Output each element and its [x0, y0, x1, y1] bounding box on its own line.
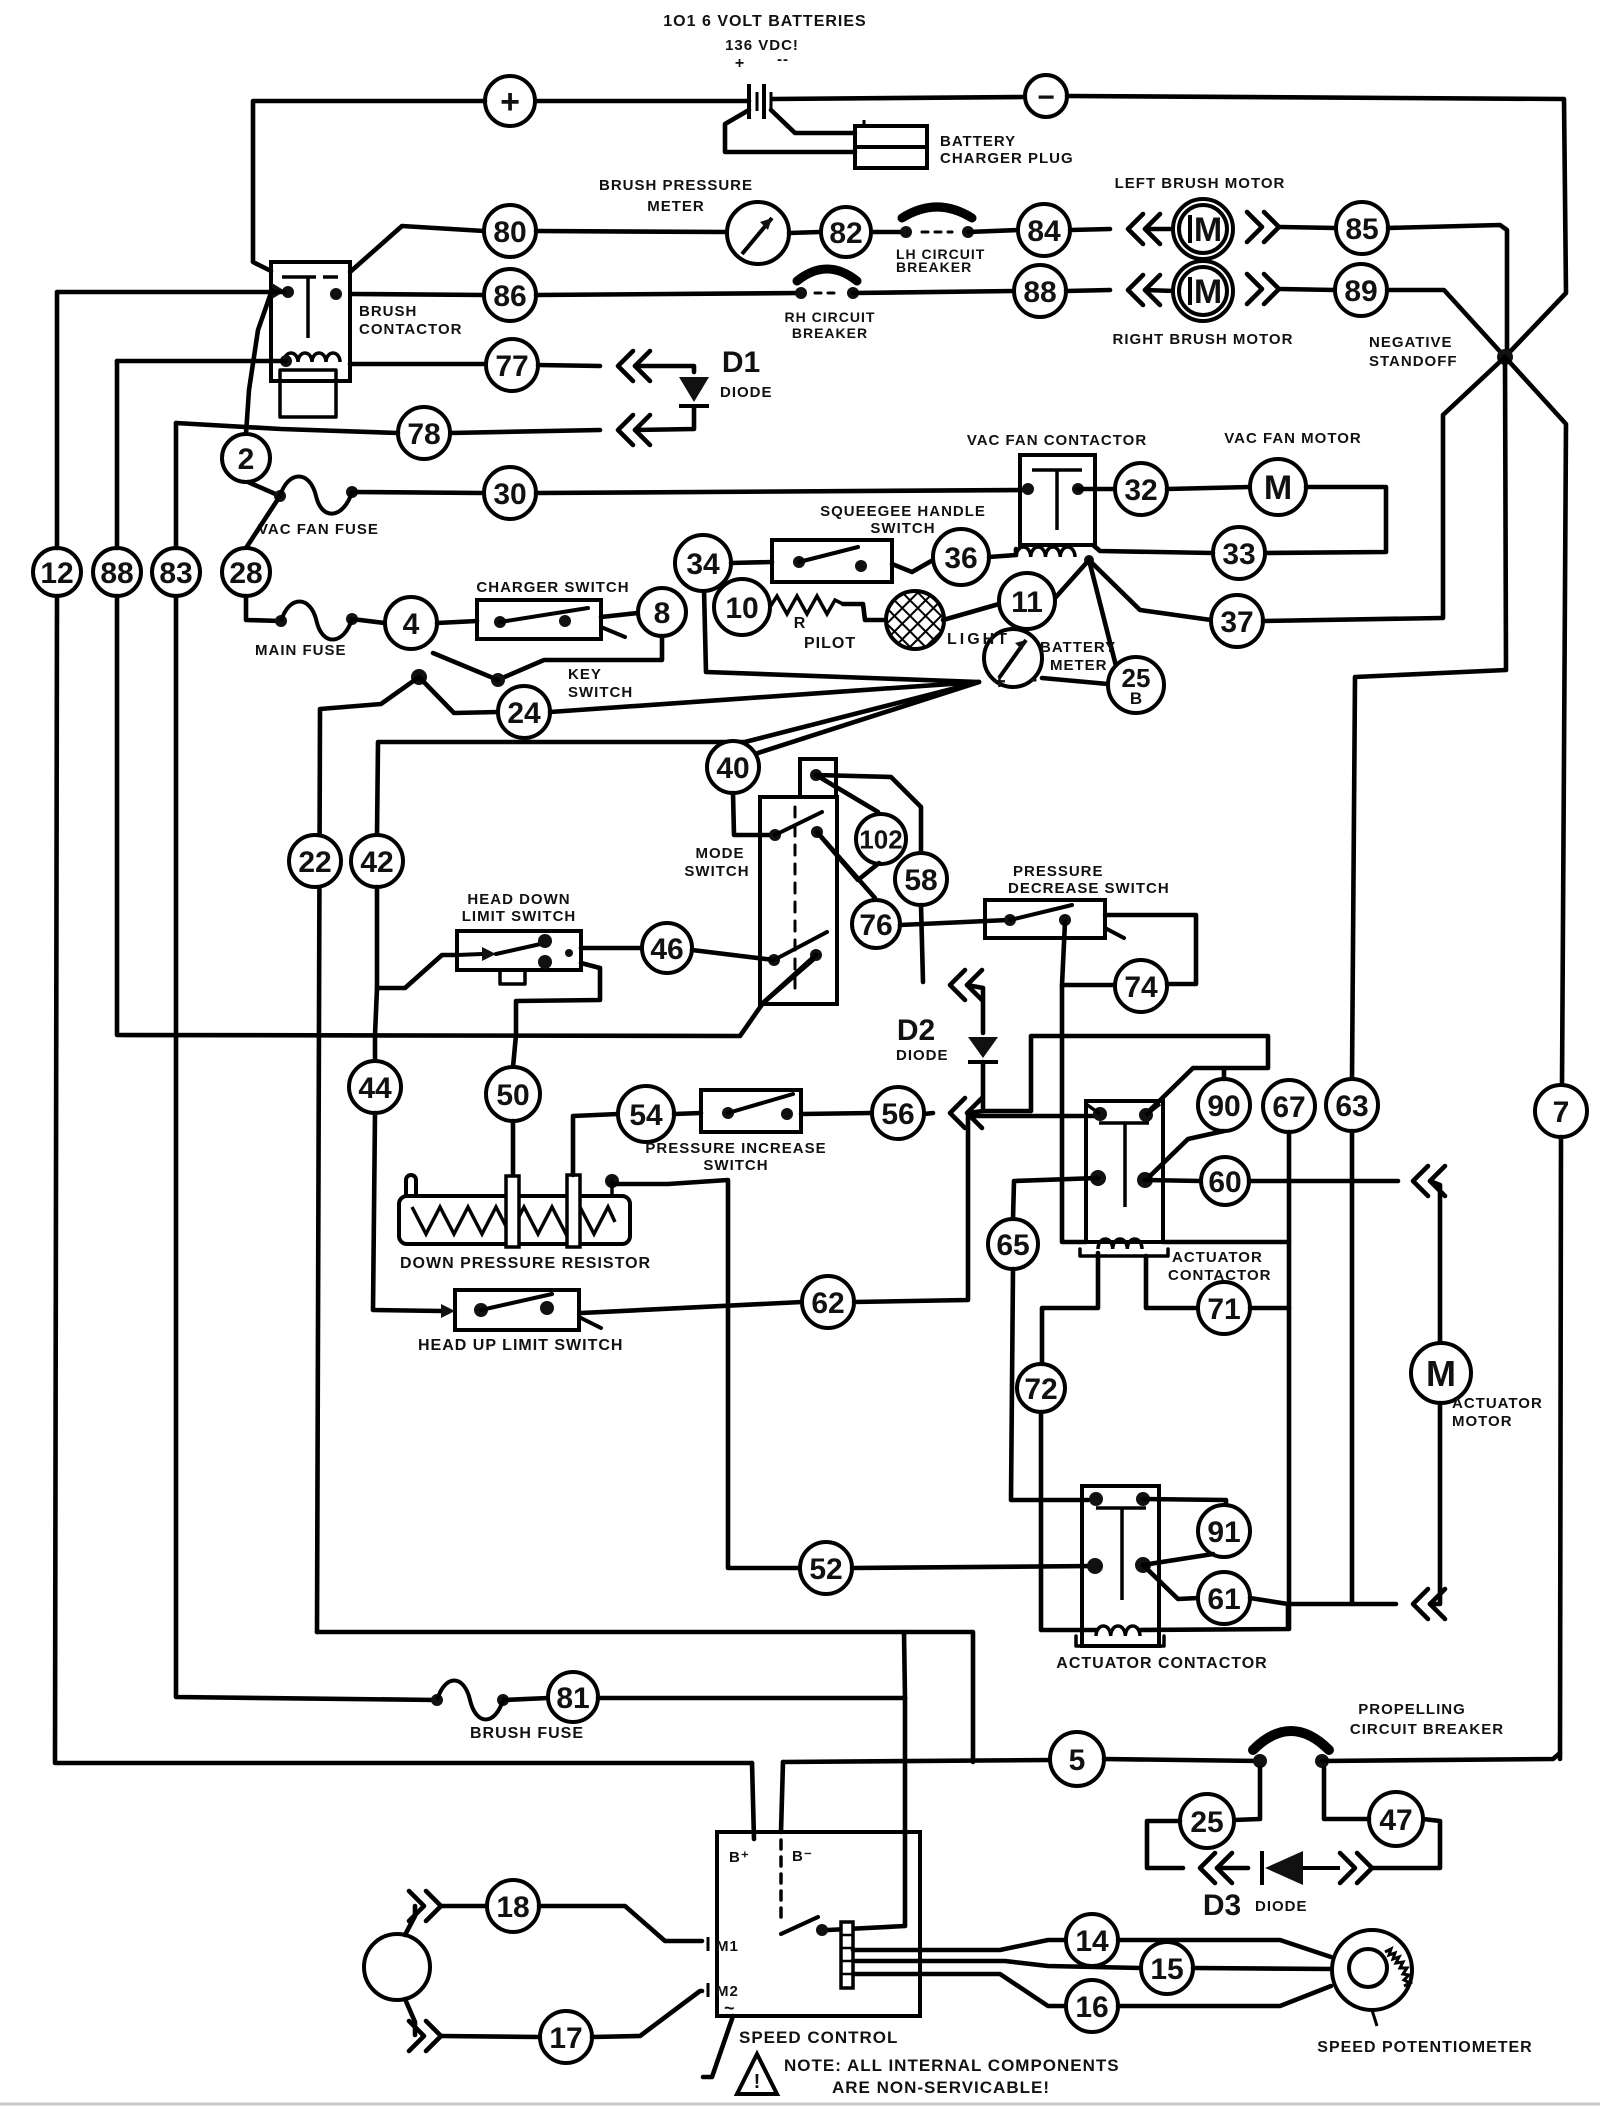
wire brush fuse to 81 — [503, 1698, 548, 1700]
connector chevrons on D3 row left — [1200, 1853, 1215, 1883]
connector chevrons on 77 row — [618, 351, 633, 381]
connector chevrons left of right brush motor — [1128, 275, 1143, 305]
svg-text:NOTE: ALL INTERNAL COMPONENTS: NOTE: ALL INTERNAL COMPONENTS — [784, 2056, 1120, 2075]
svg-text:17: 17 — [549, 2022, 582, 2055]
node 54 — [618, 1086, 674, 1142]
svg-text:M: M — [1194, 211, 1222, 249]
svg-text:CHARGER SWITCH: CHARGER SWITCH — [476, 579, 629, 596]
svg-text:82: 82 — [829, 217, 862, 250]
svg-text:33: 33 — [1222, 538, 1255, 571]
node 86 — [484, 269, 536, 321]
svg-text:R: R — [794, 615, 807, 632]
svg-text:12: 12 — [40, 557, 73, 590]
switch S2 key switch — [411, 669, 427, 685]
svg-text:CHARGER PLUG: CHARGER PLUG — [940, 150, 1074, 167]
node 84 — [1018, 204, 1070, 256]
node 16 — [1066, 1980, 1118, 2032]
node 91 — [1198, 1505, 1250, 1557]
svg-text:8: 8 — [654, 597, 671, 630]
svg-text:BRUSH PRESSURE: BRUSH PRESSURE — [599, 177, 753, 194]
svg-text:VAC FAN FUSE: VAC FAN FUSE — [258, 521, 379, 538]
svg-text:77: 77 — [495, 350, 528, 383]
wire D3 to 47 loop — [1372, 1819, 1440, 1868]
switch S1 charger switch — [477, 600, 601, 639]
wire coil1 to 71 — [1146, 1256, 1198, 1308]
svg-text:BRUSH FUSE: BRUSH FUSE — [470, 1725, 584, 1742]
node 102 — [856, 814, 906, 864]
coil of brush contactor — [284, 353, 340, 362]
wire drive motor top lead — [405, 1906, 415, 1935]
connector chevrons on D3 row right — [1340, 1853, 1355, 1883]
wire 8 down to key switch — [500, 636, 662, 679]
wire positive bus left segment and drop to brush contactor — [253, 101, 485, 271]
wire battery funnel to charger plug — [725, 110, 855, 152]
node + positive terminal circle — [485, 76, 535, 126]
svg-text:DIODE: DIODE — [720, 384, 773, 401]
svg-text:MAIN FUSE: MAIN FUSE — [255, 642, 347, 659]
node 5 — [1050, 1732, 1104, 1786]
wire fan to 34 stub — [704, 589, 979, 682]
svg-text:88: 88 — [1023, 276, 1056, 309]
svg-text:STANDOFF: STANDOFF — [1369, 353, 1458, 370]
wire 82 to LH breaker — [872, 230, 906, 235]
svg-text:M: M — [1194, 273, 1222, 311]
diode D1 — [679, 377, 709, 402]
wire 17 to M2 — [592, 1991, 702, 2037]
svg-text:PRESSURE INCREASE: PRESSURE INCREASE — [645, 1140, 826, 1157]
node negative standoff junction — [1497, 349, 1513, 365]
node 2 — [222, 434, 270, 482]
svg-text:LIMIT SWITCH: LIMIT SWITCH — [462, 908, 576, 925]
svg-text:63: 63 — [1335, 1090, 1368, 1123]
svg-text:BATTERY: BATTERY — [1040, 639, 1116, 656]
wire 4 to charger switch — [437, 621, 477, 623]
svg-text:SWITCH: SWITCH — [568, 684, 633, 701]
node 81 — [548, 1672, 598, 1722]
wire pilot to 11 — [943, 604, 999, 620]
svg-text:ACTUATOR CONTACTOR: ACTUATOR CONTACTOR — [1056, 1655, 1267, 1672]
wire 42 bus down to 44 — [375, 988, 377, 1035]
node 60 — [1201, 1157, 1249, 1205]
svg-text:VAC FAN CONTACTOR: VAC FAN CONTACTOR — [967, 432, 1147, 449]
svg-text:67: 67 — [1272, 1091, 1305, 1124]
resistor terminal dot and wire to 52 drop — [605, 1174, 619, 1188]
svg-text:90: 90 — [1207, 1090, 1240, 1123]
node 11 — [999, 573, 1055, 629]
wire fan to 40 edge — [758, 682, 979, 753]
wire 91 to right-middle contact 2 — [1143, 1554, 1213, 1565]
svg-text:91: 91 — [1207, 1516, 1240, 1549]
svg-text:47: 47 — [1379, 1804, 1412, 1837]
svg-text:RIGHT BRUSH MOTOR: RIGHT BRUSH MOTOR — [1113, 331, 1294, 348]
svg-text:5: 5 — [1069, 1744, 1086, 1777]
wire 81 junction down into speed control — [828, 1698, 905, 1930]
wire battery to negative circle — [772, 97, 1025, 99]
svg-text:76: 76 — [859, 909, 892, 942]
wire 84 to left brush motor — [1070, 229, 1110, 230]
svg-text:M1: M1 — [716, 1938, 739, 1955]
contactor K2 vac fan contactor — [1020, 455, 1095, 545]
wire fan to 42 row — [377, 682, 979, 835]
label warning triangle note — [737, 2054, 777, 2094]
connector chevrons on 56 row — [950, 1098, 965, 1128]
wire 33 to contactor box — [1093, 545, 1213, 553]
svg-text:BREAKER: BREAKER — [792, 325, 868, 341]
motor M-DRIVE propelling motor — [364, 1934, 430, 2000]
svg-text:M: M — [1264, 469, 1292, 507]
connector chevrons on 18 row — [409, 1891, 424, 1921]
wire 58 down to D2 chevrons — [921, 905, 923, 982]
svg-text:15: 15 — [1150, 1953, 1183, 1986]
connector chevrons left of left brush motor — [1128, 214, 1143, 244]
node 46 — [642, 923, 692, 973]
svg-text:B: B — [1130, 689, 1142, 708]
fuse F2 main fuse — [275, 615, 287, 627]
wire chevron to 56 — [924, 1113, 933, 1114]
node 88 right — [1014, 265, 1066, 317]
node 62 — [802, 1276, 854, 1328]
wire node 2 to vac fan fuse — [248, 482, 280, 496]
svg-text:44: 44 — [358, 1072, 392, 1105]
wire 78 to 83-bus — [176, 423, 398, 433]
wire meter to 82 — [789, 232, 820, 233]
wire D2 bottom to 56 chevrons — [968, 1062, 983, 1113]
resistor R pilot resistor — [770, 596, 843, 614]
wire 34 to squeegee switch — [731, 562, 772, 563]
connector internal terminal strip — [841, 1922, 853, 1988]
wire 67 branch to coil 1 — [1163, 1240, 1289, 1245]
coil of actuator contactor 2 — [1096, 1626, 1140, 1636]
scan artifact bottom edge line — [0, 2103, 1600, 2106]
wire vac fan fuse junction down to 28 — [246, 496, 280, 548]
meter M1 brush pressure meter — [727, 202, 789, 264]
node 36 — [933, 529, 989, 585]
svg-text:ARE NON-SERVICABLE!: ARE NON-SERVICABLE! — [832, 2078, 1050, 2097]
connector chevrons on 58 to D2 — [950, 970, 965, 1000]
svg-text:16: 16 — [1075, 1991, 1108, 2024]
wire head down switch lower to 50 — [516, 963, 600, 1035]
wire chevron to motor RB — [1145, 290, 1174, 291]
node 88 left bus — [93, 548, 141, 596]
wire right-middle contact to 60 — [1145, 1180, 1201, 1181]
svg-text:50: 50 — [496, 1079, 529, 1112]
wire 42 down to head down limit switch — [377, 887, 457, 988]
wire coil1 left down to 72 branch — [1042, 1253, 1098, 1362]
wire 15 to pot — [1193, 1968, 1332, 1969]
connector battery charger plug — [855, 126, 927, 147]
wire 60 to actuator motor top — [1430, 1181, 1440, 1343]
wire left-middle contact to 65 — [1013, 1178, 1098, 1219]
wire 28 to main fuse — [246, 596, 281, 621]
svg-text:DECREASE SWITCH: DECREASE SWITCH — [1008, 880, 1170, 897]
connector chevrons on 78 row — [618, 415, 633, 445]
node 67 — [1263, 1080, 1315, 1132]
svg-text:D1: D1 — [722, 346, 760, 379]
wire motor LB to 85 — [1281, 227, 1336, 228]
wire pressure decrease right edge loop to 74 right — [1105, 915, 1196, 984]
svg-text:-: - — [1030, 666, 1037, 691]
svg-text:+: + — [500, 83, 520, 121]
svg-text:80: 80 — [493, 216, 526, 249]
wire RH breaker to 88 — [853, 291, 1014, 293]
svg-text:85: 85 — [1345, 213, 1378, 246]
node 77 — [486, 339, 538, 391]
wire brush fuse row — [431, 1694, 443, 1706]
wire squeegee switch to 36 — [892, 560, 933, 572]
wire 67 vertical — [1287, 1132, 1292, 1629]
contactor K4 actuator contactor 2 — [1082, 1486, 1159, 1646]
wire key switch to 24 row — [419, 677, 498, 713]
svg-text:!: ! — [754, 2071, 761, 2093]
wire 72 down to coil 2 — [1041, 1412, 1096, 1630]
svg-text:RH CIRCUIT: RH CIRCUIT — [785, 309, 876, 325]
svg-text:83: 83 — [159, 557, 192, 590]
svg-text:DIODE: DIODE — [896, 1047, 949, 1064]
svg-text:SPEED CONTROL: SPEED CONTROL — [739, 2028, 898, 2047]
wire top positive bus from battery to left edge — [535, 99, 749, 104]
node − negative terminal circle — [1025, 75, 1067, 117]
svg-text:DOWN PRESSURE RESISTOR: DOWN PRESSURE RESISTOR — [400, 1255, 651, 1272]
svg-text:56: 56 — [881, 1098, 914, 1131]
switch internal speed control switch — [816, 1924, 828, 1936]
svg-text:HEAD DOWN: HEAD DOWN — [467, 891, 570, 908]
svg-text:84: 84 — [1027, 215, 1061, 248]
svg-text:46: 46 — [650, 933, 683, 966]
wire mode upper-right contact to 102 — [817, 832, 879, 880]
wire chevron to 17 — [441, 2036, 540, 2037]
node 7 — [1535, 1085, 1587, 1137]
wire top-right contact 2 to 91 — [1143, 1499, 1226, 1505]
wire standoff right leg down to node 7 — [1505, 357, 1566, 1085]
coil of vac fan contactor — [1016, 547, 1075, 557]
node 58 — [895, 853, 947, 905]
wire 61 row — [1250, 1598, 1396, 1604]
svg-text:42: 42 — [360, 846, 393, 879]
wire 83 bus vertical — [174, 423, 179, 548]
svg-text:7: 7 — [1553, 1096, 1570, 1129]
wire junction to 11 — [1055, 560, 1089, 598]
svg-text:PRESSURE: PRESSURE — [1013, 863, 1104, 880]
wire 90 stub to 1068 row — [1222, 1068, 1227, 1079]
node 82 — [821, 207, 871, 257]
wire 37 row to standoff leg — [1263, 618, 1442, 621]
wire D1 bottom to 78 row — [635, 408, 694, 430]
svg-text:34: 34 — [686, 548, 720, 581]
wire 44 stub — [373, 1035, 378, 1061]
wire 88 bus vertical — [115, 361, 120, 548]
motor M-LB left brush motor — [1173, 199, 1233, 259]
breaker CB-P propelling circuit breaker — [1253, 1754, 1267, 1768]
switch S6 head down limit switch — [457, 931, 581, 970]
svg-text:SQUEEGEE HANDLE: SQUEEGEE HANDLE — [820, 503, 986, 520]
wire B- solid above box — [781, 1762, 783, 1832]
wire 30 row — [352, 492, 484, 493]
node 12 on left bus — [33, 548, 81, 596]
svg-text:PILOT: PILOT — [804, 635, 856, 652]
wire 77 to D1 — [538, 365, 600, 366]
svg-text:71: 71 — [1207, 1293, 1240, 1326]
wire chevron stub to motor LB — [1145, 227, 1174, 232]
svg-text:10: 10 — [725, 592, 758, 625]
node 72 — [1017, 1364, 1065, 1412]
wire 40 to mode switch — [733, 793, 773, 835]
resistor R2 down pressure resistor — [399, 1196, 630, 1244]
wire 32 to vac fan motor — [1167, 487, 1250, 489]
wire 46 to mode switch lower contact — [692, 950, 774, 960]
svg-text:VAC FAN MOTOR: VAC FAN MOTOR — [1224, 430, 1361, 447]
svg-text:24: 24 — [507, 697, 541, 730]
wire 77 chevron to D1 top — [635, 366, 694, 372]
node 25 — [1180, 1794, 1234, 1848]
node 8 — [638, 588, 686, 636]
wire 25 loop left side — [1147, 1821, 1183, 1868]
node 28 on left bus — [222, 548, 270, 596]
node 71 — [1198, 1282, 1250, 1334]
wire 44 down to head up limit switch — [373, 1113, 441, 1311]
wire 80 dash from contactor to row — [350, 226, 484, 272]
wire 50 to resistor middle pin — [511, 1121, 516, 1176]
wire 14 to pot — [1118, 1940, 1331, 1957]
wire resistor to pilot light — [843, 604, 887, 620]
svg-text:KEY: KEY — [568, 666, 602, 683]
wire charger switch to 8 — [601, 613, 638, 617]
node coil junction of vac fan contactor — [1084, 555, 1094, 565]
motor M-VF vac fan motor — [1250, 459, 1306, 515]
node 4 — [385, 597, 437, 649]
diode D2 — [968, 1037, 998, 1058]
wire 80 row to brush pressure meter — [536, 231, 727, 232]
wire 65 down to contactor 2 top-left — [1011, 1269, 1088, 1500]
wire breaker right to right bus — [1322, 1753, 1560, 1761]
svg-text:86: 86 — [493, 280, 526, 313]
wire 30 row to vac fan contactor — [536, 490, 1028, 493]
wire 47 stub to breaker right — [1324, 1768, 1369, 1819]
wire resistor right slider up to 54 — [573, 1114, 618, 1175]
wire 86 to RH breaker — [536, 293, 801, 295]
connector chevrons right of right brush motor — [1247, 274, 1262, 304]
switch S8 head up limit switch — [455, 1290, 579, 1330]
wire mode lower-right contact to 88 bus row — [763, 955, 816, 1003]
node 89 — [1335, 264, 1387, 316]
svg-text:1O1 6 VOLT BATTERIES: 1O1 6 VOLT BATTERIES — [663, 13, 866, 30]
wire head down switch to 46 — [581, 946, 641, 951]
wire 60 row to chevrons — [1249, 1179, 1398, 1184]
svg-text:61: 61 — [1207, 1583, 1240, 1616]
potentiometer R3 speed potentiometer — [1332, 1930, 1412, 2010]
svg-text:B⁺: B⁺ — [729, 1849, 750, 1866]
node 10 — [714, 579, 770, 635]
wire standoff left leg down to 37 row — [1443, 357, 1505, 618]
node 40 — [707, 741, 759, 793]
svg-text:58: 58 — [904, 864, 937, 897]
svg-text:65: 65 — [996, 1229, 1029, 1262]
wire pressure increase to 56 — [801, 1113, 872, 1114]
svg-text:BATTERY: BATTERY — [940, 133, 1016, 150]
node 50 — [486, 1067, 540, 1121]
wire mode top contact to 58 — [816, 775, 921, 853]
svg-text:CONTACTOR: CONTACTOR — [359, 321, 462, 338]
wire chevron to D2 top — [967, 985, 983, 1033]
wire 86 from contactor — [352, 294, 484, 295]
wire 81 junction up to 22 bus row — [904, 1632, 905, 1698]
wire right-middle contact 2 to 61 — [1143, 1565, 1198, 1599]
svg-text:DIODE: DIODE — [1255, 1898, 1308, 1915]
wire standoff center leg down to 63 branch — [1352, 357, 1506, 1079]
switch S3 squeegee handle switch — [772, 540, 892, 582]
svg-text:102: 102 — [859, 824, 902, 854]
svg-text:ACTUATOR: ACTUATOR — [1452, 1395, 1543, 1412]
svg-text:4: 4 — [403, 608, 420, 641]
node 80 — [484, 205, 536, 257]
svg-text:MODE: MODE — [696, 845, 745, 862]
node 14 — [1066, 1914, 1118, 1966]
node 42 — [351, 835, 403, 887]
module speed control box — [717, 1832, 920, 2016]
diode D3 — [1265, 1851, 1303, 1885]
wire 89 to negative standoff — [1387, 290, 1505, 357]
wire contactor arrow terminal down to node 2 — [246, 290, 272, 434]
contactor K1 brush contactor — [271, 262, 350, 381]
wire 90 to right-middle contact — [1150, 1131, 1224, 1176]
connector chevrons on 60 row — [1413, 1166, 1428, 1196]
node 83 on left bus — [152, 548, 200, 596]
svg-text:54: 54 — [629, 1099, 663, 1132]
wire 24 row to battery meter fan — [550, 682, 979, 712]
svg-text:25: 25 — [1190, 1806, 1223, 1839]
node 25B — [1108, 657, 1164, 713]
meter M2 battery meter — [984, 629, 1042, 687]
svg-text:18: 18 — [496, 1891, 529, 1924]
wire 5 to breaker left — [1104, 1759, 1260, 1761]
svg-text:30: 30 — [493, 478, 526, 511]
wire 36 to vac fan contactor coil — [989, 549, 1016, 557]
wire 61 junction down to coil 2 right — [1140, 1604, 1288, 1630]
wire B- dashed inside box — [779, 1840, 783, 1925]
wire chevron to D3 — [1217, 1866, 1248, 1871]
wire 22 bus bottom row — [317, 1632, 973, 1762]
fuse F1 vac fan fuse — [274, 490, 286, 502]
wire 77 row right of contactor — [350, 362, 486, 367]
connector chevrons on 61 row — [1413, 1589, 1428, 1619]
switch S4 mode switch — [760, 797, 837, 1004]
switch S7 pressure increase switch — [701, 1090, 801, 1132]
motor M-RB right brush motor — [1173, 261, 1233, 321]
svg-text:22: 22 — [298, 846, 331, 879]
switch S5 pressure decrease switch — [985, 900, 1105, 938]
node 37 — [1211, 595, 1263, 647]
node 33 — [1213, 527, 1265, 579]
svg-text:62: 62 — [811, 1287, 844, 1320]
svg-text:72: 72 — [1024, 1373, 1057, 1406]
node 18 — [487, 1880, 539, 1932]
svg-text:32: 32 — [1124, 474, 1157, 507]
wire 77 row from 88-bus through contactor — [117, 359, 286, 364]
svg-text:60: 60 — [1208, 1166, 1241, 1199]
svg-text:NEGATIVE: NEGATIVE — [1369, 334, 1453, 351]
svg-text:SWITCH: SWITCH — [684, 863, 749, 880]
node 85 — [1336, 202, 1388, 254]
wire 81 row to junction — [598, 1696, 905, 1701]
svg-text:ACTUATOR: ACTUATOR — [1172, 1249, 1263, 1266]
wire 5 row from B- to breaker — [783, 1760, 1051, 1762]
svg-text:40: 40 — [716, 752, 749, 785]
svg-text:+: + — [735, 55, 745, 72]
svg-text:52: 52 — [809, 1553, 842, 1586]
battery B1 101 6-volt batteries — [747, 84, 751, 119]
svg-text:D2: D2 — [897, 1014, 935, 1047]
wire 71 to 67 vertical — [1250, 1306, 1289, 1311]
node 22 — [289, 835, 341, 887]
